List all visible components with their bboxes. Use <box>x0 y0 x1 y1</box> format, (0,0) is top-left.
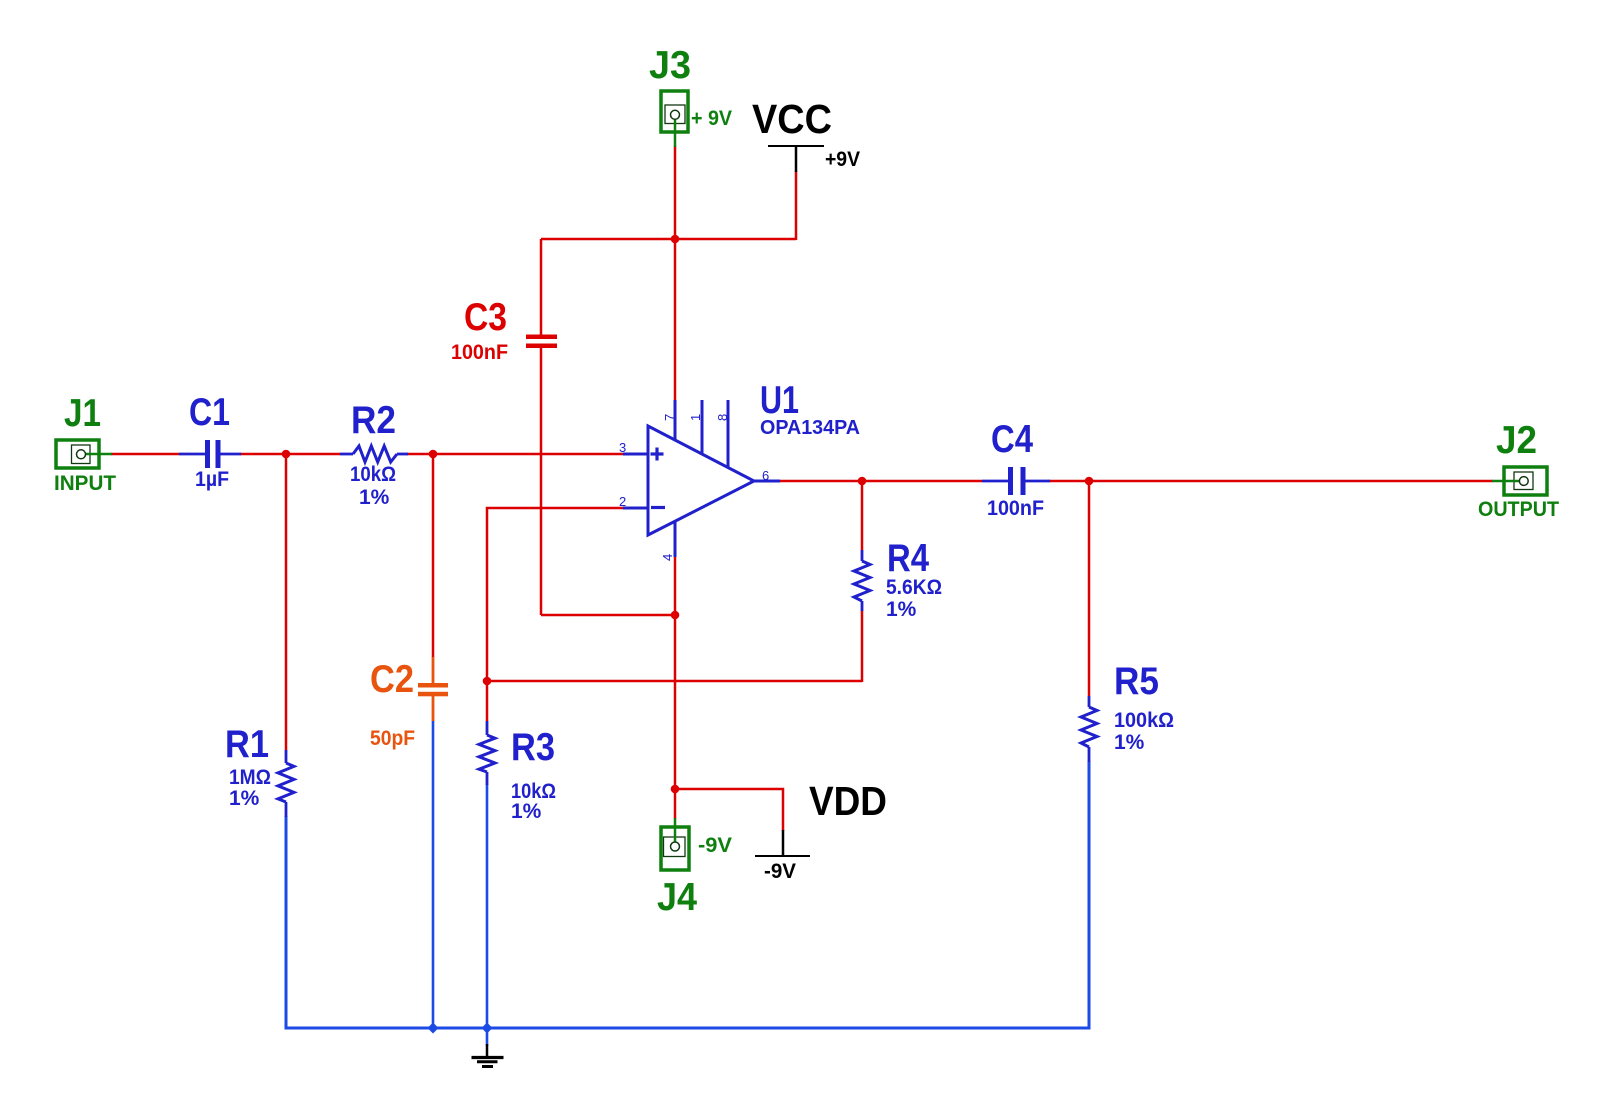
connector J3 <box>649 44 732 147</box>
junction node pin4 rail <box>671 611 680 620</box>
pin 4 stub <box>674 521 677 557</box>
svg-text:OUTPUT: OUTPUT <box>1478 498 1559 521</box>
svg-text:1%: 1% <box>511 800 542 823</box>
junction node C4/R5 <box>1085 477 1094 486</box>
svg-text:U1: U1 <box>760 379 799 422</box>
svg-text:1%: 1% <box>229 787 260 810</box>
wire R3 bottom to bus <box>486 784 489 1046</box>
wire VDD rail <box>675 789 783 831</box>
resistor R1 <box>225 723 294 817</box>
resistor R2 <box>340 399 408 509</box>
wire R4 bottom <box>861 610 864 682</box>
pin 2 stub <box>623 507 648 510</box>
wire U1 pin 4 column down <box>674 557 677 789</box>
wire C3 top lead <box>540 239 543 335</box>
wire C3 bottom lead <box>540 347 543 615</box>
svg-text:+9V: +9V <box>825 148 860 171</box>
svg-text:C1: C1 <box>189 391 230 434</box>
svg-text:1%: 1% <box>359 486 390 509</box>
svg-text:3: 3 <box>619 440 626 455</box>
op-amp U1 <box>619 379 860 561</box>
wire VCC top rail <box>541 238 796 241</box>
ground <box>472 1044 504 1067</box>
capacitor C4 <box>982 418 1050 520</box>
wire R4 top <box>861 481 864 550</box>
resistor R3 <box>479 721 556 823</box>
svg-text:5.6KΩ: 5.6KΩ <box>886 576 942 599</box>
wire C2 bottom to bus <box>432 720 435 1028</box>
junction node R2/C2 <box>429 450 438 459</box>
wire R1 top <box>285 454 288 750</box>
svg-text:7: 7 <box>662 414 677 421</box>
svg-text:VCC: VCC <box>752 96 832 142</box>
wire VCC drop <box>795 171 798 240</box>
svg-text:J1: J1 <box>64 392 101 435</box>
svg-text:J3: J3 <box>649 44 691 87</box>
svg-text:VDD: VDD <box>809 778 887 824</box>
svg-text:+ 9V: + 9V <box>691 107 732 130</box>
svg-text:2: 2 <box>619 494 626 509</box>
svg-text:C2: C2 <box>370 658 414 701</box>
svg-text:4: 4 <box>660 554 675 561</box>
svg-text:8: 8 <box>715 414 730 421</box>
svg-text:R4: R4 <box>887 537 929 580</box>
plus sign <box>651 448 664 461</box>
wire U1 output to C4 <box>779 480 982 483</box>
power symbol VCC <box>752 96 860 172</box>
pin 8 stub <box>727 400 730 468</box>
svg-text:100nF: 100nF <box>451 341 508 364</box>
svg-text:R5: R5 <box>1114 660 1159 703</box>
svg-text:1%: 1% <box>886 598 917 621</box>
svg-text:100nF: 100nF <box>987 497 1044 520</box>
pin 1 stub <box>701 400 704 455</box>
svg-text:1%: 1% <box>1114 731 1145 754</box>
svg-text:10kΩ: 10kΩ <box>350 463 396 486</box>
svg-text:-9V: -9V <box>698 834 732 857</box>
junction node J4/VDD <box>671 785 680 794</box>
pin 7 stub <box>674 400 677 441</box>
svg-text:R2: R2 <box>351 399 396 442</box>
svg-text:OPA134PA: OPA134PA <box>760 417 860 439</box>
svg-text:100kΩ: 100kΩ <box>1114 709 1174 732</box>
wire J1 to C1 <box>111 453 179 456</box>
resistor R5 <box>1081 660 1174 762</box>
wire C1 to R2 <box>240 453 340 456</box>
svg-text:6: 6 <box>762 468 769 483</box>
wire U1 pin 2 feedback <box>487 508 623 682</box>
junction node C2/bus <box>428 1023 439 1034</box>
resistor R4 <box>854 537 942 621</box>
capacitor C3 <box>451 296 557 364</box>
junction node J1/C1/R1 <box>282 450 291 459</box>
wire J4 stub red <box>674 789 677 819</box>
minus sign <box>651 506 665 509</box>
svg-text:1µF: 1µF <box>195 468 229 491</box>
wire R5 top <box>1088 481 1091 696</box>
svg-text:J4: J4 <box>657 876 697 919</box>
junction node R3/bus/ground <box>482 1023 493 1034</box>
wire C3 bottom rail to pin4 column <box>541 614 675 617</box>
connector J2 <box>1478 419 1559 521</box>
svg-text:1: 1 <box>688 414 703 421</box>
svg-text:C3: C3 <box>464 296 507 339</box>
svg-text:INPUT: INPUT <box>54 472 116 495</box>
svg-text:R3: R3 <box>511 726 555 769</box>
junction node feedback/R3 <box>483 677 492 686</box>
svg-text:J2: J2 <box>1496 419 1537 462</box>
wire C2 top <box>432 454 435 657</box>
svg-text:50pF: 50pF <box>370 727 415 750</box>
wire R2 to U1 pin 3 <box>407 453 623 456</box>
svg-text:-9V: -9V <box>764 860 796 883</box>
connector J1 <box>54 392 116 495</box>
wire J3 down to U1 pin 7 <box>674 146 677 401</box>
capacitor C2 <box>370 657 448 750</box>
svg-text:R1: R1 <box>225 723 269 766</box>
svg-text:1MΩ: 1MΩ <box>229 766 271 789</box>
wire R3 top <box>486 681 489 721</box>
power symbol VDD <box>755 778 887 883</box>
capacitor C1 <box>179 391 241 491</box>
junction node output/R4 <box>858 477 867 486</box>
svg-text:C4: C4 <box>991 418 1033 461</box>
wire feedback rail to R4 <box>487 680 862 683</box>
wire C4 to J2 <box>1049 480 1493 483</box>
pin 6 stub <box>754 480 780 483</box>
pin 3 stub <box>623 453 648 456</box>
junction node VCC rail <box>671 235 680 244</box>
wire ground bus <box>286 761 1089 1028</box>
connector J4 <box>657 818 732 919</box>
